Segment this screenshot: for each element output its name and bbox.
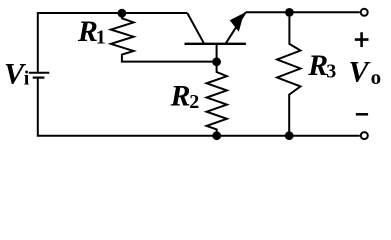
transistor Q1 base lead (vertical to junction) <box>216 44 218 62</box>
node: junction dot at top of R3 <box>285 8 294 17</box>
svg-text:o: o <box>371 65 382 89</box>
wire: top-left rail and left branch down to battery top <box>38 13 188 72</box>
label Vi (source voltage) <box>4 57 30 90</box>
node: junction dot at bottom of R3 <box>285 131 294 140</box>
node: base junction dot <box>212 57 221 66</box>
svg-text:R: R <box>77 15 98 48</box>
label Vo (output voltage) <box>349 56 382 90</box>
label R2 <box>170 80 200 113</box>
svg-text:V: V <box>349 56 372 89</box>
transistor Q1 emitter lead (slant with arrow to top rail) <box>226 12 246 44</box>
transistor Q1 collector lead (slant from top rail to bar) <box>187 13 204 44</box>
wire: battery bottom to bottom rail, bottom rail to output terminal <box>38 79 360 136</box>
battery V1 short plate (-) <box>33 76 45 78</box>
svg-text:3: 3 <box>326 61 336 83</box>
transistor Q1 base bar <box>185 43 246 45</box>
node: junction dot at bottom of R2 <box>212 131 221 140</box>
label + (output polarity) <box>355 32 369 47</box>
transistor Q1 emitter arrowhead <box>230 13 244 32</box>
output terminal (bottom, open circle) <box>361 132 368 139</box>
svg-text:i: i <box>24 68 30 90</box>
svg-text:R: R <box>307 49 328 82</box>
wire: top rail right segment from transistor emitter to output terminal <box>246 11 360 13</box>
resistor R3 zigzag from top rail to bottom rail <box>277 12 300 136</box>
svg-text:1: 1 <box>96 27 106 49</box>
resistor R2 zigzag from base junction to bottom rail <box>207 62 227 136</box>
battery V1 long plate (+) <box>29 72 50 74</box>
label R3 <box>307 49 336 83</box>
label - (output polarity) <box>356 113 368 116</box>
resistor R1 zigzag plus wire down and right to base node <box>111 13 217 62</box>
node: junction dot at top of R1 <box>118 9 127 18</box>
output terminal (top, open circle) <box>361 9 368 16</box>
svg-text:2: 2 <box>189 91 199 113</box>
svg-text:R: R <box>170 80 191 113</box>
label R1 <box>77 15 106 49</box>
